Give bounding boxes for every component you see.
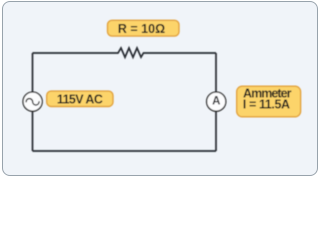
svg-text:R = 10Ω: R = 10Ω <box>118 22 165 36</box>
wire: right vertical segment <box>215 53 217 151</box>
value label box: 115V AC (source voltage) <box>47 91 113 107</box>
wire: left vertical segment <box>32 53 34 151</box>
svg-text:I = 11.5A: I = 11.5A <box>243 98 290 112</box>
wire: bottom segment <box>33 150 217 152</box>
panel background frame <box>2 1 319 176</box>
AC source: circle body <box>23 92 42 111</box>
value label box: R = 10 ohm (resistor R) <box>108 20 180 36</box>
ammeter: circle body <box>207 92 226 111</box>
svg-text:115V AC: 115V AC <box>57 93 103 107</box>
svg-text:A: A <box>212 96 220 108</box>
AC source: sine-wave symbol <box>26 99 39 106</box>
wire: top segment containing resistor R zigzag <box>33 48 217 57</box>
value label box: Ammeter I = 11.5A <box>237 86 301 117</box>
